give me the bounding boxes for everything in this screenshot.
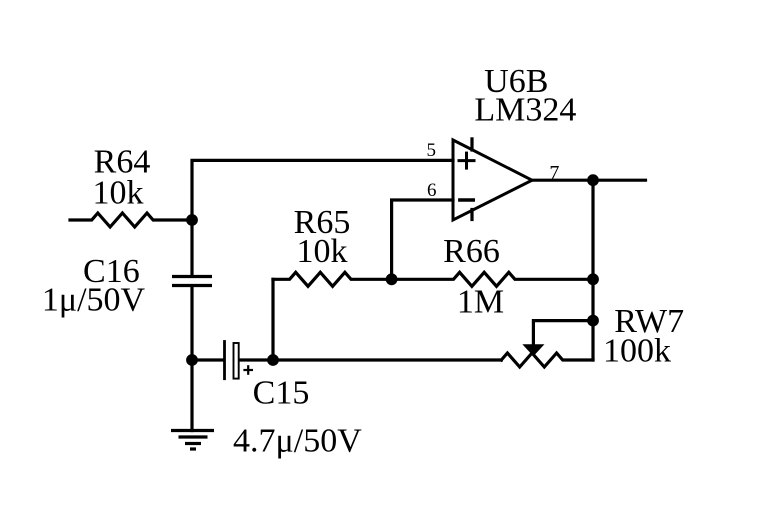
svg-text:C15: C15 xyxy=(253,375,310,412)
svg-text:1M: 1M xyxy=(457,284,504,321)
svg-text:100k: 100k xyxy=(603,333,671,370)
svg-text:R66: R66 xyxy=(443,233,500,270)
svg-text:1μ/50V: 1μ/50V xyxy=(42,282,146,319)
svg-text:10k: 10k xyxy=(297,233,348,270)
svg-text:4.7μ/50V: 4.7μ/50V xyxy=(233,423,362,460)
svg-text:5: 5 xyxy=(426,140,436,161)
svg-text:LM324: LM324 xyxy=(474,91,576,128)
svg-text:7: 7 xyxy=(549,162,559,184)
svg-text:6: 6 xyxy=(427,180,437,201)
svg-text:10k: 10k xyxy=(93,174,144,211)
